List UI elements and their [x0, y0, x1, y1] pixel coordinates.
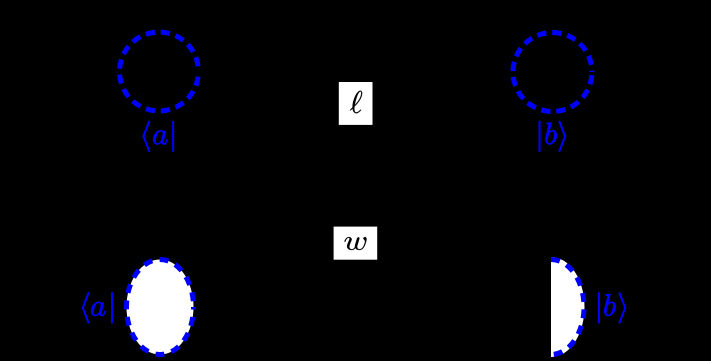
- label bra-a top-left: [143, 121, 174, 152]
- dashed arc of half-ellipse: [551, 260, 584, 355]
- white box with script ell (length label): [339, 82, 373, 125]
- filled dashed ellipse bottom-left (boundary state a): [127, 260, 194, 355]
- filled dashed half-ellipse bottom-right (boundary state b): [551, 257, 585, 357]
- dashed circle top-left (cylinder end a): [120, 32, 199, 111]
- label ket-b bottom-right: [598, 292, 626, 323]
- label bra-a bottom-left: [82, 292, 112, 323]
- glyph script-ell: [350, 91, 362, 113]
- glyph w (math italic): [345, 237, 367, 250]
- dashed circle top-right (cylinder end b): [513, 33, 592, 112]
- white box with w (width label): [334, 227, 378, 260]
- label ket-b top-right: [539, 121, 566, 152]
